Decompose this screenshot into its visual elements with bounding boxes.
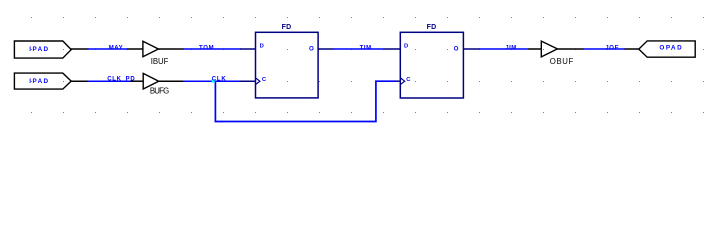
pin wire FD1 C input	[239, 80, 256, 82]
svg-text:JIM: JIM	[505, 45, 517, 51]
svg-text:FD: FD	[282, 24, 292, 31]
pad U7 IPAD (bottom input pad)	[14, 73, 71, 89]
pin wire OPAD input	[625, 48, 640, 50]
svg-text:FD: FD	[427, 24, 437, 31]
svg-text:MAY: MAY	[109, 45, 123, 51]
svg-text:BUFG: BUFG	[150, 87, 169, 96]
pin wire FD1 O output	[318, 48, 334, 50]
wire net TIM	[334, 48, 384, 50]
pin wire OBUF input	[528, 48, 541, 50]
pin wire FD2 O output	[463, 48, 479, 50]
pin wire FD2 C input	[396, 80, 401, 82]
svg-text:TIM: TIM	[360, 45, 372, 51]
pin wire IPAD top output	[71, 48, 89, 50]
clock chevron (FD1 C input)	[256, 78, 260, 84]
wire net CLK branch down and across to FD2 clock	[215, 81, 396, 121]
junction marker on net CLK	[212, 79, 215, 82]
wire net JIM	[479, 48, 528, 50]
svg-text:C: C	[406, 77, 411, 83]
svg-text:OBUF: OBUF	[550, 57, 574, 66]
pin wire IBUF input	[128, 48, 143, 50]
svg-text:TOM: TOM	[199, 45, 214, 51]
flip-flop U4 FD (right) body	[400, 32, 463, 98]
wire net CLK_PD	[88, 80, 131, 82]
svg-text:C: C	[262, 77, 267, 83]
svg-text:OPAD: OPAD	[659, 45, 683, 52]
svg-text:O: O	[454, 45, 459, 52]
pin wire IPAD bottom output	[71, 80, 89, 82]
svg-text:JOE: JOE	[605, 45, 619, 51]
pin wire BUFG output	[159, 80, 184, 82]
buffer U5 OBUF	[541, 41, 557, 57]
buffer U2 IBUF	[143, 41, 159, 57]
pin wire FD2 D input	[384, 48, 401, 50]
buffer U8 BUFG	[143, 73, 159, 89]
pad U1 IPAD (top input pad)	[14, 41, 71, 58]
pin wire OBUF output	[557, 48, 583, 50]
clock chevron (FD2 C input)	[401, 78, 405, 84]
svg-text:D: D	[260, 44, 264, 50]
wire net JOE	[583, 48, 625, 50]
svg-text:O: O	[309, 45, 314, 52]
svg-text:IPAD: IPAD	[29, 46, 49, 53]
pin wire IBUF output	[158, 48, 183, 50]
flip-flop U3 FD (left) body	[256, 32, 319, 98]
pin wire FD1 D input	[240, 48, 256, 50]
svg-text:D: D	[404, 44, 408, 50]
svg-text:IPAD: IPAD	[29, 78, 49, 85]
pin wire BUFG input	[131, 80, 144, 82]
wire net TOM	[183, 48, 241, 50]
svg-text:IBUF: IBUF	[151, 57, 169, 66]
svg-text:CLK: CLK	[212, 76, 227, 82]
pad U6 OPAD (output pad)	[639, 41, 695, 57]
wire net CLK horizontal run	[183, 80, 240, 82]
wire net MAY	[88, 48, 128, 50]
